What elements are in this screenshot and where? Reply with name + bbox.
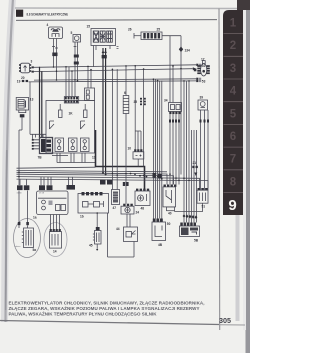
svg-text:19: 19 xyxy=(17,80,21,84)
svg-text:29 28: 29 28 xyxy=(39,193,45,195)
svg-text:5B: 5B xyxy=(194,239,199,243)
svg-text:11: 11 xyxy=(92,156,96,160)
svg-text:5: 5 xyxy=(230,108,237,120)
svg-text:ELEKTROWENTYLATOR CHŁODNICY, S: ELEKTROWENTYLATOR CHŁODNICY, SILNIK DMUC… xyxy=(9,301,205,306)
svg-text:1b: 1b xyxy=(80,215,84,219)
svg-text:53: 53 xyxy=(202,80,206,84)
svg-text:ZŁĄCZE ZEGARA, WSKAŹNIK POZIOM: ZŁĄCZE ZEGARA, WSKAŹNIK POZIOMU PALIWA I… xyxy=(9,304,200,311)
svg-text:4: 4 xyxy=(47,23,49,27)
svg-text:2: 2 xyxy=(230,40,236,52)
svg-text:25: 25 xyxy=(157,28,161,32)
svg-text:3: 3 xyxy=(31,60,33,64)
svg-text:5: 5 xyxy=(71,31,73,35)
svg-text:8.8 SCHEMATY ELEKTRYCZNE: 8.8 SCHEMATY ELEKTRYCZNE xyxy=(27,13,69,17)
svg-text:14: 14 xyxy=(53,250,57,254)
svg-text:9: 9 xyxy=(228,197,236,214)
svg-text:13: 13 xyxy=(30,98,34,102)
svg-text:39: 39 xyxy=(200,96,204,100)
svg-text:31 30: 31 30 xyxy=(17,193,23,195)
svg-text:PALIWA, WSKAŹNIK TEMPERATURY P: PALIWA, WSKAŹNIK TEMPERATURY PŁYNU CHŁOD… xyxy=(9,309,158,316)
svg-text:305: 305 xyxy=(219,316,231,325)
svg-text:47: 47 xyxy=(113,206,117,210)
svg-text:134: 134 xyxy=(185,49,191,53)
svg-text:21: 21 xyxy=(193,161,197,165)
svg-text:7B: 7B xyxy=(38,156,43,160)
svg-text:40: 40 xyxy=(168,212,172,216)
svg-text:48: 48 xyxy=(141,207,145,211)
svg-text:4: 4 xyxy=(230,86,237,98)
svg-text:26: 26 xyxy=(128,28,132,32)
svg-text:15: 15 xyxy=(87,25,91,29)
svg-text:1a: 1a xyxy=(33,216,37,220)
svg-text:50: 50 xyxy=(167,222,171,226)
svg-text:45: 45 xyxy=(89,244,93,248)
svg-text:6: 6 xyxy=(230,131,236,143)
svg-text:3: 3 xyxy=(230,63,236,75)
svg-text:4B: 4B xyxy=(158,243,163,247)
svg-text:7: 7 xyxy=(230,154,236,166)
svg-text:8: 8 xyxy=(230,176,237,188)
svg-text:kabina: kabina xyxy=(15,246,22,248)
svg-text:34: 34 xyxy=(164,99,168,103)
svg-text:5a: 5a xyxy=(33,248,37,252)
svg-text:17: 17 xyxy=(201,58,205,62)
svg-text:44: 44 xyxy=(116,227,120,231)
svg-text:52: 52 xyxy=(202,64,206,68)
svg-text:10: 10 xyxy=(128,147,132,151)
svg-text:1: 1 xyxy=(230,18,237,30)
svg-text:1K: 1K xyxy=(69,112,74,116)
svg-text:24: 24 xyxy=(136,211,140,215)
svg-text:20: 20 xyxy=(21,76,25,80)
svg-text:51: 51 xyxy=(202,205,206,209)
svg-text:6: 6 xyxy=(124,91,126,95)
svg-text:35: 35 xyxy=(134,100,138,104)
